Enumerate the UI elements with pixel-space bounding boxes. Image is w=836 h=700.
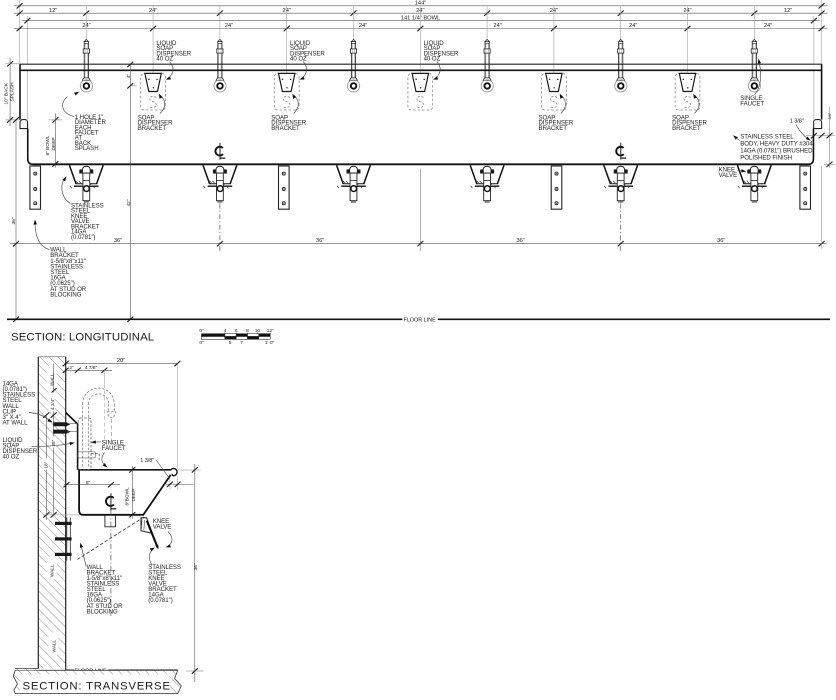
- svg-text:WALL: WALL: [49, 564, 54, 577]
- svg-text:36": 36": [516, 238, 524, 244]
- svg-text:SPLASH: SPLASH: [75, 145, 99, 152]
- svg-text:FAUCET: FAUCET: [102, 445, 126, 452]
- svg-text:WALL: WALL: [51, 640, 56, 653]
- svg-text:0": 0": [199, 340, 204, 346]
- svg-text:2": 2": [69, 365, 74, 371]
- svg-text:BRACKET: BRACKET: [672, 125, 701, 132]
- svg-text:20": 20": [117, 358, 125, 364]
- svg-text:42": 42": [126, 199, 132, 206]
- svg-text:36": 36": [114, 238, 122, 244]
- svg-text:VALVE: VALVE: [719, 172, 738, 179]
- svg-text:BLOCKING: BLOCKING: [87, 608, 118, 615]
- svg-text:(0.0781"): (0.0781"): [148, 597, 172, 604]
- svg-text:1 3/8": 1 3/8": [790, 119, 804, 125]
- svg-text:SPLASH: SPLASH: [10, 82, 16, 102]
- svg-text:STAINLESS STEEL: STAINLESS STEEL: [740, 134, 794, 141]
- svg-text:40 OZ: 40 OZ: [3, 453, 20, 460]
- svg-text:24": 24": [493, 23, 501, 29]
- svg-text:7: 7: [240, 340, 243, 346]
- svg-text:(0.0781"): (0.0781"): [71, 234, 95, 241]
- svg-text:36": 36": [193, 563, 199, 570]
- svg-text:6": 6": [86, 480, 91, 486]
- svg-text:40 OZ: 40 OZ: [424, 56, 441, 63]
- svg-text:SECTION: TRANSVERSE: SECTION: TRANSVERSE: [23, 680, 171, 692]
- svg-text:AT WALL: AT WALL: [3, 420, 29, 427]
- svg-text:18": 18": [44, 461, 49, 468]
- svg-text:40 OZ: 40 OZ: [290, 56, 307, 63]
- svg-text:36": 36": [11, 217, 17, 224]
- svg-text:36": 36": [316, 238, 324, 244]
- svg-text:VALVE: VALVE: [153, 524, 172, 531]
- svg-text:4 7/8": 4 7/8": [85, 365, 98, 371]
- svg-text:141 1/4" BOWL: 141 1/4" BOWL: [401, 15, 441, 21]
- svg-text:144": 144": [415, 1, 427, 7]
- svg-text:12": 12": [49, 8, 57, 14]
- svg-text:40 OZ: 40 OZ: [156, 56, 173, 63]
- svg-text:36": 36": [717, 238, 725, 244]
- svg-text:8" BOWL: 8" BOWL: [45, 135, 51, 155]
- svg-text:24": 24": [225, 23, 233, 29]
- svg-text:0": 0": [199, 328, 204, 334]
- svg-text:SECTION: LONGITUDINAL: SECTION: LONGITUDINAL: [11, 332, 154, 344]
- svg-text:8"BOWL: 8"BOWL: [125, 487, 131, 506]
- svg-text:5: 5: [229, 340, 232, 346]
- svg-text:24": 24": [359, 23, 367, 29]
- svg-text:4 1/4": 4 1/4": [50, 398, 55, 410]
- svg-text:BRACKET: BRACKET: [271, 125, 300, 132]
- svg-text:BRACKET: BRACKET: [539, 125, 568, 132]
- svg-text:12": 12": [784, 8, 792, 14]
- svg-text:1'-0": 1'-0": [265, 340, 275, 346]
- svg-text:BODY, HEAVY DUTY #304: BODY, HEAVY DUTY #304: [740, 141, 813, 148]
- svg-text:DEEP: DEEP: [131, 489, 137, 502]
- svg-text:24": 24": [764, 23, 772, 29]
- svg-text:POLISHED FINISH: POLISHED FINISH: [740, 155, 792, 162]
- svg-text:BRACKET: BRACKET: [138, 125, 167, 132]
- svg-text:10" BACK: 10" BACK: [3, 82, 9, 104]
- svg-text:FAUCET: FAUCET: [740, 101, 764, 108]
- svg-text:5/8": 5/8": [827, 112, 832, 119]
- svg-text:BLOCKING: BLOCKING: [50, 291, 81, 298]
- svg-text:24": 24": [629, 23, 637, 29]
- svg-text:4": 4": [126, 74, 131, 79]
- svg-text:FLOOR LINE: FLOOR LINE: [404, 318, 437, 324]
- svg-text:1 3/8": 1 3/8": [140, 458, 154, 464]
- svg-text:DEEP: DEEP: [51, 137, 57, 150]
- svg-text:14GA (0.0781") BRUSHED: 14GA (0.0781") BRUSHED: [740, 148, 813, 155]
